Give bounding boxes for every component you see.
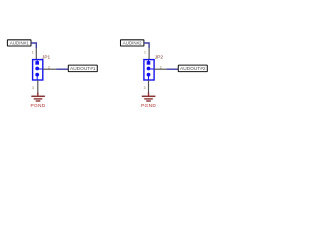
pin 1 of JP1 — [35, 48, 37, 60]
svg-text:JP1: JP1 — [42, 54, 50, 59]
pin 3 of JP1 — [37, 80, 39, 93]
connector JP1 body — [33, 60, 43, 80]
supply PGND stem — [37, 93, 39, 97]
svg-text:AUDOUT#2: AUDOUT#2 — [180, 66, 206, 71]
ground bar 2 — [34, 98, 43, 100]
connector JP2 body — [144, 60, 154, 80]
ground bar 1 — [31, 95, 45, 97]
svg-text:2: 2 — [160, 65, 162, 69]
svg-text:1: 1 — [32, 51, 34, 55]
ground bar 3 — [146, 100, 151, 102]
svg-text:PGND: PGND — [30, 103, 45, 109]
svg-text:3: 3 — [32, 86, 34, 90]
jack contact circle (sleeve) — [147, 73, 151, 80]
svg-text:3: 3 — [144, 86, 146, 90]
jack contact square (tip) — [35, 60, 39, 65]
ground bar 2 — [144, 98, 153, 100]
svg-text:1: 1 — [144, 51, 146, 55]
svg-text:2: 2 — [48, 65, 50, 69]
svg-text:AUDIN#1: AUDIN#1 — [10, 41, 30, 46]
net flag AUDOUT#2 — [178, 65, 207, 72]
pin 2 of JP2 — [154, 68, 166, 70]
net flag AUDOUT#1 — [68, 65, 97, 72]
jack contact square (tip) — [147, 60, 151, 65]
wire net AUDOUT#2 — [166, 68, 178, 70]
pin 3 of JP2 — [148, 80, 150, 93]
wire net AUDIN#2 — [144, 43, 149, 48]
svg-text:AUDOUT#1: AUDOUT#1 — [70, 66, 96, 71]
jack contact circle (ring) — [147, 67, 154, 71]
pin 1 of JP2 — [148, 48, 150, 60]
svg-text:AUDIN#2: AUDIN#2 — [123, 41, 143, 46]
net flag AUDIN#2 — [121, 40, 144, 46]
supply PGND stem — [148, 93, 150, 97]
net flag AUDIN#1 — [7, 40, 31, 46]
jack contact circle (sleeve) — [35, 73, 39, 80]
jack contact circle (ring) — [35, 67, 42, 71]
ground bar 3 — [36, 100, 41, 102]
ground bar 1 — [142, 95, 156, 97]
svg-text:PGND: PGND — [141, 103, 156, 109]
wire net AUDOUT#1 — [57, 68, 69, 70]
svg-text:JP2: JP2 — [155, 54, 164, 60]
wire net AUDIN#1 — [31, 43, 36, 48]
pin 2 of JP1 — [43, 68, 57, 70]
